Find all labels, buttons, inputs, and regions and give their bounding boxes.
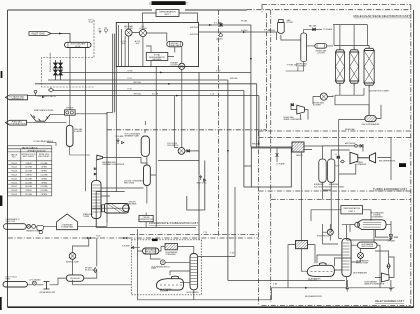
debutanizer column: [190, 254, 198, 290]
svg-text:K.O. LIN: K.O. LIN: [214, 23, 222, 25]
line tags on process headers: [96, 20, 354, 298]
svg-text:REFRIGERATION: REFRIGERATION: [159, 11, 176, 14]
plate fin exchanger: [296, 241, 308, 249]
middle process box: [251, 147, 291, 187]
svg-text:10" BD: 10" BD: [128, 70, 134, 72]
cool pond circulation pump: [178, 148, 185, 155]
svg-text:MOL %: MOL %: [89, 20, 95, 22]
stabilizer overhead compressor: [97, 155, 103, 160]
svg-text:COOLER: COOLER: [317, 52, 325, 54]
svg-text:DE-ETHANIZER: DE-ETHANIZER: [353, 272, 368, 275]
wires de-ethanizer unit: [228, 221, 398, 288]
svg-text:PONT: PONT: [6, 279, 11, 281]
adsorption tower C: [364, 46, 374, 88]
adsorption tower A: [335, 48, 344, 87]
stabilization unit box: [96, 192, 196, 228]
transfer pumps: [27, 225, 36, 229]
wires inside general unit: [119, 23, 182, 148]
svg-text:OPEN: OPEN: [41, 178, 47, 180]
reflux pump LPG: [69, 253, 76, 260]
svg-text:TO FLARE: TO FLARE: [115, 135, 124, 138]
svg-text:COOLER: COOLER: [170, 64, 178, 66]
plant refrigeration package box: [146, 53, 168, 62]
svg-text:BLOWER: BLOWER: [313, 105, 321, 107]
evaporation pond: [31, 114, 51, 121]
svg-text:CLOSE: CLOSE: [41, 175, 49, 177]
svg-text:FE: FE: [99, 28, 101, 30]
svg-text:OPEN: OPEN: [41, 194, 47, 196]
svg-text:PUMP: PUMP: [151, 268, 156, 270]
svg-text:DE-ETHANIZER UNIT: DE-ETHANIZER UNIT: [375, 299, 404, 303]
de-ethanizer reflux pump: [358, 253, 364, 259]
svg-text:CONDENSER: CONDENSER: [371, 217, 383, 219]
debutanizer condenser: [165, 244, 178, 250]
de-ethanizer reflux drum: [358, 242, 378, 248]
svg-text:SHP-1600: SHP-1600: [190, 27, 198, 29]
molecular sieve unit outer dash-dot boundary: [219, 5, 411, 306]
valve on sales gas line: [219, 22, 222, 37]
gas filter vessel F-01: [278, 20, 285, 34]
dashed metering boundary: [42, 20, 95, 87]
turbo expander machine: [350, 152, 376, 164]
svg-text:SEAL GAS: SEAL GAS: [170, 44, 180, 47]
adsorption tower B: [350, 48, 359, 87]
regen gas scrubber column: [301, 33, 307, 62]
svg-text:INLET GAS: INLET GAS: [31, 33, 44, 36]
svg-text:XV-08: XV-08: [11, 190, 17, 192]
refrigeration unit 1 box: [156, 10, 179, 17]
svg-text:CLOSE: CLOSE: [25, 167, 33, 169]
svg-text:COMPRESSOR BATCH: COMPRESSOR BATCH: [37, 95, 57, 98]
chiller compressor skid: [139, 215, 153, 221]
svg-text:PACKAGE: PACKAGE: [152, 58, 162, 61]
to flare actuated valve: [389, 234, 392, 240]
HP fuel gas drum pill: [167, 41, 183, 47]
svg-text:PACKAGE: PACKAGE: [129, 203, 138, 206]
wire main gas riser: [107, 34, 115, 223]
LPG unit dash-dot boundary: [8, 130, 267, 238]
black tag at right edge: [399, 163, 406, 167]
gas/gas exchanger: [292, 142, 304, 152]
chiller exchanger: [102, 204, 130, 214]
overhead pump circle: [327, 229, 333, 235]
svg-text:OPEN: OPEN: [26, 190, 32, 192]
svg-text:UNIT 2: UNIT 2: [349, 211, 356, 213]
svg-text:COMPRESSOR: COMPRESSOR: [9, 98, 24, 100]
inlet gas banner: [29, 32, 51, 36]
slug catcher vessel: [65, 42, 92, 48]
long process headers left section: [28, 25, 259, 281]
condensate day drum: [37, 225, 44, 230]
svg-text:CONDENSER: CONDENSER: [166, 254, 177, 256]
gas superheater: [365, 116, 376, 122]
svg-text:REFLUX DRUM: REFLUX DRUM: [145, 252, 157, 254]
expander kod V2: [328, 159, 335, 182]
svg-text:30H-1600: 30H-1600: [268, 30, 275, 32]
svg-text:XV-07: XV-07: [11, 186, 17, 188]
svg-text:SHP-1600: SHP-1600: [190, 34, 198, 36]
svg-text:PLATE FIN EX B: PLATE FIN EX B: [317, 235, 331, 238]
wires turbo unit: [301, 138, 391, 241]
svg-text:REBOILER: REBOILER: [160, 291, 169, 293]
regen gas blower circle: [320, 93, 327, 100]
svg-text:TK-01 PONT: TK-01 PONT: [6, 221, 16, 223]
svg-text:REFLUX DRUM: REFLUX DRUM: [362, 246, 374, 248]
title bar GENERAL PROCESSING UNIT: [149, 1, 188, 5]
LPG bullet vessel: [66, 275, 84, 281]
compressor K-02 circle: [139, 30, 146, 37]
black tag on debutanizer box: [152, 239, 158, 241]
svg-text:RECOMPRESSOR: RECOMPRESSOR: [379, 160, 396, 162]
svg-text:CLOSE: CLOSE: [25, 186, 33, 188]
vent instrument: [199, 175, 205, 181]
svg-text:OPEN: OPEN: [41, 171, 47, 173]
svg-text:GENERAL PROCESSING UNIT: GENERAL PROCESSING UNIT: [149, 1, 188, 5]
fuel gas distribution banner: [6, 120, 27, 125]
svg-text:CLOSE: CLOSE: [41, 163, 49, 165]
svg-text:OPEN: OPEN: [41, 182, 47, 184]
svg-text:XV-01: XV-01: [11, 163, 17, 165]
svg-text:J-T: J-T: [335, 154, 337, 156]
svg-text:ADSORPTION TOWER: ADSORPTION TOWER: [369, 90, 390, 93]
svg-text:BAL GAS: BAL GAS: [309, 25, 317, 28]
svg-text:GC-01: GC-01: [89, 22, 94, 24]
svg-text:NO.: NO.: [12, 157, 16, 159]
svg-text:CLOSE: CLOSE: [41, 186, 49, 188]
svg-text:XV-03: XV-03: [11, 171, 17, 173]
svg-text:COMPRESSOR SKID: COMPRESSOR SKID: [138, 219, 155, 221]
svg-text:MAKEUP COMPRESSOR: MAKEUP COMPRESSOR: [364, 282, 385, 285]
compressor K-01 circle: [125, 29, 132, 36]
svg-text:HP VENT: HP VENT: [85, 267, 92, 269]
chilled condensate feed drum: [144, 165, 151, 186]
de-ethanizer overhead condenser: [355, 220, 386, 230]
svg-text:OVERHEAD COMPRESSOR: OVERHEAD COMPRESSOR: [102, 163, 125, 166]
svg-text:EXPANDER: EXPANDER: [357, 163, 367, 166]
flare line in box: [276, 148, 279, 162]
svg-text:RECOVERY: RECOVERY: [23, 156, 35, 158]
de-ethanizer unit dash-dot boundary: [262, 200, 411, 306]
svg-text:ANTI SURGE: ANTI SURGE: [345, 142, 356, 145]
LPG loading pump: [32, 281, 36, 285]
wire refrigeration connectors: [143, 13, 198, 23]
wire blower piping: [291, 95, 333, 119]
svg-text:CLOSE: CLOSE: [25, 194, 33, 196]
valve status table: [7, 146, 51, 196]
svg-text:OPERATION MODE: OPERATION MODE: [27, 149, 46, 152]
boundary valves on LPG line: [87, 237, 128, 240]
svg-text:REFRIGERATION: REFRIGERATION: [344, 207, 361, 210]
de-ethanizer reboiler kettle: [307, 263, 334, 277]
svg-text:MOLECULAR SIEVE DEHYDRATION UN: MOLECULAR SIEVE DEHYDRATION UNIT: [354, 14, 411, 18]
svg-text:TOWER: TOWER: [83, 216, 90, 218]
wire tower bottom manifold: [335, 86, 369, 116]
anti-surge valve: [355, 145, 363, 148]
svg-text:XV-09: XV-09: [96, 236, 100, 238]
to flare line with valve: [304, 29, 322, 33]
instrument on sales line: [34, 88, 54, 96]
svg-text:CLOSE: CLOSE: [41, 190, 49, 192]
svg-text:EVAPORATION POND: EVAPORATION POND: [34, 109, 54, 112]
svg-text:OPEN: OPEN: [41, 167, 47, 169]
svg-text:XV-06: XV-06: [11, 182, 17, 184]
LPG metering skid: [44, 282, 50, 290]
condensate transfer pill: [4, 224, 27, 230]
svg-text:OPEN: OPEN: [26, 163, 32, 165]
svg-text:CH UNIT: CH UNIT: [66, 108, 74, 110]
svg-text:LPG METERING SKID: LPG METERING SKID: [39, 292, 56, 294]
debutanizer reflux pump: [160, 260, 165, 265]
spare regen gas compressor: [291, 104, 304, 115]
svg-text:VENT DRV-1: VENT DRV-1: [197, 183, 207, 185]
svg-text:TO FLARE: TO FLARE: [276, 163, 286, 166]
wire condensate line: [26, 223, 107, 227]
svg-text:200-1602: 200-1602: [216, 38, 223, 40]
svg-text:LPG BULLET: LPG BULLET: [70, 278, 80, 280]
svg-text:CLOSE: CLOSE: [25, 182, 33, 184]
svg-text:CLOSE: CLOSE: [25, 171, 33, 173]
general unit main box: [116, 23, 198, 67]
CH unit box: [65, 110, 76, 115]
svg-text:UNIT 1: UNIT 1: [164, 14, 171, 16]
svg-text:SHP-1600: SHP-1600: [134, 82, 141, 84]
makeup compressor: [381, 273, 389, 282]
svg-text:PRESSURE LETDOWN: PRESSURE LETDOWN: [50, 52, 52, 72]
svg-text:TO DISTRIBUTION: TO DISTRIBUTION: [8, 124, 26, 126]
unit name labels: [149, 14, 410, 303]
svg-text:XV-04: XV-04: [11, 175, 17, 177]
svg-text:SUCTION VESSEL: SUCTION VESSEL: [314, 186, 330, 188]
wire filter to scrubber: [277, 32, 301, 40]
scan edge marks: [0, 71, 2, 310]
svg-text:VALVE STATUS: VALVE STATUS: [22, 146, 38, 149]
svg-text:XV-02: XV-02: [11, 167, 17, 169]
svg-text:TO FLARE: TO FLARE: [323, 28, 333, 31]
svg-text:FILTER: FILTER: [287, 22, 294, 24]
svg-text:XV-09: XV-09: [11, 194, 17, 196]
wire outputs right of general unit: [199, 25, 277, 32]
wires debutanizer: [138, 187, 272, 300]
wire pond piping: [50, 112, 112, 125]
debutanizer dashed box: [131, 240, 201, 295]
regen gas cooler pill: [315, 44, 327, 49]
wires stabilization unit: [92, 67, 293, 228]
svg-text:CLOSE: CLOSE: [25, 178, 33, 180]
debutanizer reflux drum: [143, 248, 159, 254]
debutanizer reboiler kettle: [156, 276, 183, 290]
svg-text:SHP-1600: SHP-1600: [230, 78, 237, 80]
to flare marks left of drum: [117, 138, 124, 144]
svg-text:K.O. LIN: K.O. LIN: [152, 94, 159, 96]
JT valve: [387, 263, 390, 269]
to sales gas compressor banner: [6, 95, 28, 100]
svg-text:TURBO EXPANDER UNIT: TURBO EXPANDER UNIT: [373, 187, 407, 191]
svg-text:N. FLARE: N. FLARE: [122, 244, 130, 247]
svg-text:SHP-1600: SHP-1600: [134, 94, 141, 96]
svg-text:OPEN: OPEN: [26, 175, 32, 177]
svg-text:TO FUEL GAS: TO FUEL GAS: [287, 64, 299, 67]
drain symbol 1: [346, 284, 349, 291]
drain symbol 2: [389, 284, 392, 291]
svg-text:CIRCULATION: CIRCULATION: [167, 144, 179, 147]
svg-text:RECOVERY: RECOVERY: [38, 156, 50, 158]
svg-text:GAS EX: GAS EX: [296, 154, 303, 157]
bypass valves with X symbols: [54, 60, 63, 80]
trim air cooler circle: [179, 63, 185, 69]
overhead line valves: [94, 168, 96, 176]
svg-text:REFLUX PUMP: REFLUX PUMP: [356, 262, 369, 264]
svg-text:GAS SUPERHEATER: GAS SUPERHEATER: [362, 123, 380, 126]
wire superheater piping: [339, 105, 381, 142]
de-ethanizer column: [342, 239, 351, 277]
svg-text:XV-05: XV-05: [11, 178, 17, 180]
wire tower top manifold: [333, 25, 369, 48]
wire refrig unit 2 connectors: [311, 210, 371, 221]
turbo expander unit dash-dot boundary: [259, 138, 411, 192]
svg-text:SEPARATE PLANT: SEPARATE PLANT: [125, 135, 140, 138]
condensate storage tank house: [57, 214, 78, 230]
svg-text:CHILLER: CHILLER: [143, 217, 151, 219]
svg-text:B-02: B-02: [136, 43, 140, 45]
svg-text:KO DRUM: KO DRUM: [74, 131, 83, 133]
fuel gas KO drum: [66, 125, 73, 146]
flow arrows: [42, 24, 308, 289]
wires LPG section: [28, 238, 132, 285]
stabilizer tower: [92, 181, 102, 219]
wire slug catcher outlets down: [70, 48, 116, 192]
expander suction scrubber V1: [319, 159, 326, 182]
svg-text:SC-01: SC-01: [75, 46, 80, 48]
svg-text:SPARE COMPRESSOR: SPARE COMPRESSOR: [284, 118, 303, 121]
wire inlet to slug catcher: [51, 34, 70, 43]
svg-text:FEED DRUM: FEED DRUM: [124, 183, 135, 185]
LPG product bullet: [3, 282, 28, 287]
condensate flash drum upper: [141, 136, 149, 156]
refrigeration unit 2 box: [341, 206, 363, 214]
svg-text:DE-BUTANIZER: DE-BUTANIZER: [186, 291, 199, 294]
